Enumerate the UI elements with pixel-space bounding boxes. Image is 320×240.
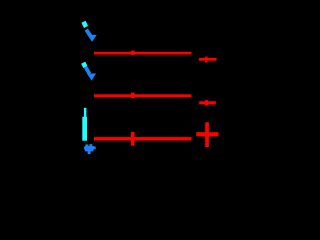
red data point 1 centre marker	[131, 51, 135, 55]
blue marker cluster	[84, 144, 96, 154]
red data point 3 horizontal error bar	[94, 137, 192, 140]
red data point 6 horizontal error bar	[196, 132, 218, 136]
red data point 4 horizontal error bar	[199, 58, 217, 61]
blue arrow 1 shaft	[86, 30, 90, 36]
blue arrow 2 head	[87, 73, 96, 80]
cyan vertical error bar thick lower part	[82, 117, 87, 141]
plot background	[0, 0, 240, 171]
red data point 4 vertical error bar	[205, 57, 208, 63]
blue arrow 1 head	[87, 35, 97, 42]
red data point 2 centre marker	[131, 93, 135, 98]
red data point 2 horizontal error bar	[94, 94, 192, 97]
cyan upper-limit dash 2	[83, 63, 85, 67]
blue arrow 2 shaft	[85, 67, 89, 74]
cyan upper-limit dash 1	[84, 22, 87, 27]
red data point 6 vertical error bar	[205, 122, 209, 147]
red data point 5 vertical error bar	[205, 100, 208, 105]
red data point 5 horizontal error bar	[199, 101, 216, 104]
red data point 1 horizontal error bar	[94, 52, 192, 55]
red data point 3 vertical error bar	[131, 132, 135, 146]
cyan vertical error bar thin upper part	[84, 108, 87, 117]
